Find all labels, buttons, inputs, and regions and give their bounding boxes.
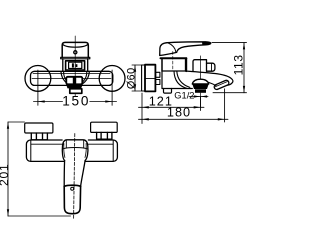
flange [145, 65, 155, 92]
handle lower box [63, 59, 88, 72]
dim extension wall [141, 93, 143, 124]
fitting inner line [211, 63, 213, 71]
handle shaft [64, 161, 85, 187]
flange mid line [145, 77, 155, 79]
handle cap sag arc [62, 44, 88, 47]
right escutcheon rect [91, 122, 118, 132]
left escutcheon circle [25, 66, 51, 92]
grip joint line [64, 185, 80, 186]
neck top thick line [161, 57, 187, 59]
handle screw dot [74, 51, 77, 54]
dim 150 extension lines [38, 70, 112, 105]
dim 121 line [139, 106, 205, 108]
boss outer arc [61, 72, 89, 86]
svg-text:G1/2: G1/2 [174, 90, 194, 100]
aerator pad [213, 80, 229, 91]
dim 150 arrows [38, 100, 112, 102]
bar cap lines [31, 140, 113, 161]
dim 150 line [34, 101, 117, 103]
handle centerline dashed [74, 134, 75, 220]
boss inner arc [64, 72, 87, 85]
neck sides [162, 59, 186, 71]
handle head [160, 43, 177, 56]
inner plate [66, 61, 85, 70]
lever tip fill [202, 42, 211, 45]
fillet arc right [177, 71, 190, 87]
grip screw dot [71, 187, 74, 190]
neck centerline [172, 52, 174, 72]
bar mid line [31, 143, 113, 145]
grip [64, 186, 80, 213]
body bar axis line [32, 78, 111, 80]
diverter knob outline [66, 77, 82, 85]
spout top edge [187, 71, 233, 85]
left escutcheon rect [25, 123, 53, 133]
front view vertical centerline [74, 36, 76, 96]
shower fitting block1 [193, 60, 207, 71]
right union [97, 132, 112, 139]
dim o60 line [134, 65, 136, 91]
body bar [31, 71, 113, 85]
right escutcheon circle [99, 66, 125, 92]
svg-text:Ø60: Ø60 [126, 67, 138, 89]
nut facets [156, 72, 160, 77]
svg-text:150: 150 [62, 94, 90, 109]
svg-text:201: 201 [0, 164, 11, 186]
outlet black nut [195, 89, 206, 93]
body block [162, 71, 192, 89]
svg-text:180: 180 [167, 105, 191, 119]
body bar chamfer line [33, 72, 110, 74]
outlet black body [192, 84, 208, 89]
dim extension spout tip [224, 89, 226, 122]
body lower cap [164, 89, 172, 94]
lever handle [167, 42, 211, 53]
plate window [69, 62, 82, 68]
dim texts [0, 54, 246, 186]
knob lower rect [70, 89, 82, 94]
knob center band [73, 77, 76, 84]
handle ledge [61, 57, 90, 59]
G12 leader [189, 96, 208, 98]
wall plate [142, 65, 145, 91]
dome cap edges [66, 140, 83, 148]
spout underside near bowl [209, 82, 217, 85]
dim 201 line [7, 122, 9, 216]
outlet axis centerline [200, 56, 202, 108]
ext line 113 bottom [213, 92, 247, 94]
head joint line [168, 43, 176, 52]
handle cap box [62, 42, 88, 57]
dome side wall inner lines [64, 144, 86, 158]
shower fitting block2 [207, 63, 215, 71]
handle dome top view [62, 140, 88, 161]
knob black base [66, 84, 83, 89]
outlet bowl dome [192, 79, 208, 84]
dim 180 line [139, 118, 229, 120]
dim extension outlet [200, 97, 202, 111]
dim 113 line [243, 43, 245, 93]
plate marks [72, 63, 77, 67]
svg-text:113: 113 [232, 54, 246, 75]
body right edge [185, 58, 187, 71]
left union [31, 133, 47, 140]
fillet arc left [174, 71, 187, 88]
dome inner arc [62, 148, 88, 150]
top view bar [26, 140, 117, 161]
